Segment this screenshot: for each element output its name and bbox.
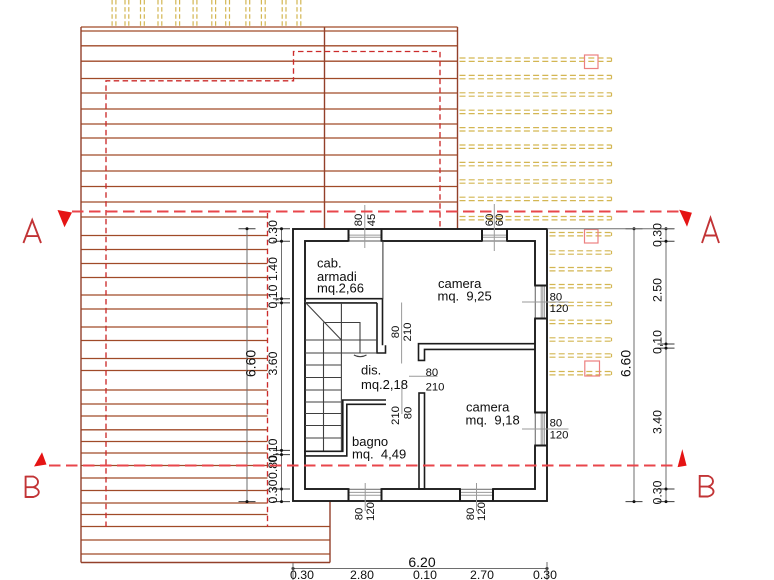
- svg-text:80: 80: [465, 508, 477, 521]
- section arrow B left: [34, 452, 47, 466]
- svg-text:mq. 9,25: mq. 9,25: [438, 288, 492, 303]
- room label camera 9,18: [466, 400, 520, 428]
- section letter A right: [702, 218, 719, 243]
- roof plank hatch: full-width top band: [81, 27, 458, 202]
- window 60/60 top wall: [482, 229, 507, 242]
- roof outline right edge (top part): [457, 27, 459, 229]
- section line A-A: [72, 210, 682, 212]
- svg-text:0.10: 0.10: [413, 568, 437, 580]
- red square marker 3: [585, 361, 600, 376]
- dashed roof projection outline (stepped): [106, 52, 440, 528]
- bottom left window labels: [354, 502, 378, 521]
- room label cab. armadi: [317, 256, 364, 296]
- roof outline left edge: [80, 27, 82, 563]
- section letter B right: [700, 475, 714, 497]
- svg-text:210: 210: [390, 406, 402, 425]
- room label bagno: [352, 434, 406, 461]
- window 60/60 labels: [484, 214, 506, 227]
- svg-text:mq.2,18: mq.2,18: [361, 377, 408, 392]
- rafter tick pairs above roof: [112, 0, 301, 27]
- svg-text:210: 210: [402, 323, 414, 342]
- svg-text:210: 210: [426, 381, 445, 393]
- svg-text:6.60: 6.60: [618, 350, 634, 377]
- interior wall below cab.armadi and left of dis. door: [304, 299, 386, 353]
- svg-text:0.30: 0.30: [533, 568, 557, 580]
- svg-text:80: 80: [550, 292, 563, 304]
- svg-text:120: 120: [550, 303, 569, 315]
- roof plank hatch: bottom band: [81, 527, 330, 555]
- window 80/120 bottom wall right: [460, 488, 493, 501]
- svg-text:1.40: 1.40: [266, 257, 280, 281]
- svg-text:120: 120: [476, 502, 488, 521]
- window 80/120 bottom wall left: [349, 488, 382, 501]
- svg-text:2.80: 2.80: [350, 568, 374, 580]
- svg-text:2.70: 2.70: [470, 568, 494, 580]
- window 80/45 top wall: [349, 229, 382, 242]
- svg-text:mq. 4,49: mq. 4,49: [352, 446, 406, 461]
- section arrow B right: [678, 449, 687, 467]
- door dis-camera 9,25 labels: [390, 323, 414, 342]
- room label dis.: [361, 363, 408, 392]
- svg-text:80: 80: [426, 367, 439, 379]
- wall between camera 9,25 and camera 9,18 with door stub: [419, 344, 536, 361]
- svg-text:3.60: 3.60: [266, 351, 280, 375]
- svg-text:60: 60: [494, 214, 506, 227]
- svg-text:2.50: 2.50: [651, 278, 665, 302]
- svg-text:mq.2,66: mq.2,66: [317, 281, 364, 296]
- right overall dimension line 6.60: [626, 227, 643, 503]
- right upper window labels: [550, 292, 569, 316]
- right segmented dimension line: [658, 227, 675, 503]
- section letter A left: [23, 220, 41, 243]
- svg-text:3.40: 3.40: [651, 410, 665, 434]
- svg-text:0,10: 0,10: [651, 330, 665, 354]
- bottom extension lines: [293, 562, 547, 580]
- svg-text:80: 80: [390, 326, 402, 339]
- stair direction arrow: [324, 323, 367, 357]
- bottom overall dimension line 6.20: [292, 563, 549, 574]
- section letter B left: [26, 476, 39, 498]
- room label camera 9,25: [438, 276, 492, 304]
- svg-text:120: 120: [365, 502, 377, 521]
- cabinet divider line: [382, 241, 384, 299]
- left 6.60 label: [243, 350, 259, 377]
- roof outline bottom edge: [81, 562, 330, 564]
- svg-text:0,10: 0,10: [266, 284, 280, 308]
- svg-text:dis.: dis.: [361, 363, 381, 378]
- red square marker 1: [585, 55, 599, 69]
- right 6.60 label: [618, 350, 634, 377]
- svg-text:mq. 9,18: mq. 9,18: [466, 413, 520, 428]
- svg-text:80: 80: [402, 407, 414, 420]
- svg-text:0.30: 0.30: [266, 220, 280, 244]
- svg-text:6.60: 6.60: [243, 350, 259, 377]
- svg-text:45: 45: [366, 214, 378, 227]
- right dimension labels: [651, 223, 665, 505]
- door camera 9,18 labels: [426, 367, 445, 394]
- opening leader lines: [365, 204, 569, 511]
- bagno top wall / stair-side wall / wall below stairs: [304, 400, 386, 456]
- section arrow A right: [679, 210, 692, 227]
- bottom right window labels: [465, 502, 488, 521]
- door bagno labels: [390, 406, 414, 425]
- purlin dashed pairs, right of building: [550, 233, 612, 375]
- purlin dashed pairs, upper right field: [460, 58, 612, 220]
- roof outline right edge (bottom part, x=330): [329, 501, 331, 563]
- svg-text:0.30: 0.30: [651, 480, 665, 504]
- right lower window labels: [550, 417, 569, 441]
- top-right extension line: [547, 228, 674, 230]
- left dimension labels: [266, 220, 280, 504]
- svg-text:80: 80: [354, 508, 366, 521]
- svg-text:80: 80: [353, 214, 365, 227]
- svg-text:0.30: 0.30: [290, 568, 314, 580]
- svg-text:0.30: 0.30: [651, 223, 665, 247]
- red square marker 2: [585, 230, 599, 244]
- roof ridge line (vertical, x=324.5): [324, 27, 326, 229]
- svg-text:80: 80: [550, 417, 563, 429]
- camera 9,18 / bagno separating wall: [419, 393, 425, 489]
- window 80/45 labels: [353, 214, 378, 227]
- left segmented dimension line: [273, 227, 290, 503]
- left overall dimension line 6.60: [239, 227, 256, 503]
- svg-text:0.80: 0.80: [266, 455, 280, 479]
- section line B-B: [49, 464, 678, 466]
- svg-text:0.30: 0.30: [266, 479, 280, 503]
- svg-text:120: 120: [550, 429, 569, 441]
- window 80/120 right wall upper: [534, 286, 547, 319]
- staircase: [305, 302, 378, 451]
- roof plank hatch: left band: [81, 217, 268, 515]
- section arrow A left: [58, 210, 73, 227]
- window 80/120 right wall lower: [534, 413, 547, 446]
- bottom dimension labels: [290, 568, 557, 580]
- exterior wall outline: [293, 229, 547, 501]
